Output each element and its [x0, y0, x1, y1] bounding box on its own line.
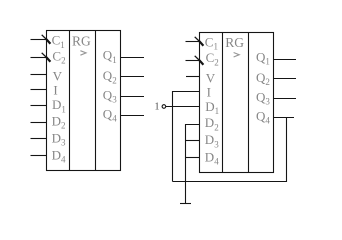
svg-text:D3: D3 — [52, 130, 66, 147]
svg-text:I: I — [53, 83, 57, 98]
svg-text:D3: D3 — [205, 132, 219, 149]
svg-text:Q2: Q2 — [256, 70, 270, 87]
svg-text:D4: D4 — [52, 148, 66, 165]
svg-text:D1: D1 — [205, 99, 219, 116]
svg-text:C2: C2 — [52, 48, 65, 65]
svg-text:V: V — [53, 69, 63, 84]
svg-text:Q1: Q1 — [256, 50, 270, 67]
svg-text:Q1: Q1 — [103, 48, 117, 65]
svg-text:Q3: Q3 — [256, 89, 270, 106]
svg-text:D1: D1 — [52, 97, 66, 114]
svg-text:I: I — [207, 84, 211, 99]
svg-text:D4: D4 — [205, 149, 219, 166]
svg-text:D2: D2 — [52, 113, 66, 130]
svg-text:C1: C1 — [52, 33, 65, 50]
svg-text:Q2: Q2 — [103, 68, 117, 85]
svg-text:C1: C1 — [205, 34, 218, 51]
svg-text:Q4: Q4 — [103, 107, 117, 124]
svg-text:1: 1 — [155, 102, 160, 113]
svg-text:Q4: Q4 — [256, 108, 270, 125]
svg-text:D2: D2 — [205, 115, 219, 132]
svg-text:RG: RG — [72, 33, 91, 48]
svg-text:C2: C2 — [206, 50, 219, 67]
svg-text:Q3: Q3 — [103, 88, 117, 105]
svg-text:RG: RG — [225, 35, 244, 50]
svg-text:V: V — [206, 71, 216, 86]
